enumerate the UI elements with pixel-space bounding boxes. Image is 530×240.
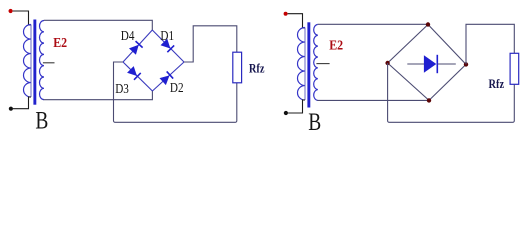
wire (right secondary center-tap stub): [316, 63, 329, 65]
svg-text:E2: E2: [329, 37, 343, 53]
svg-text:D1: D1: [160, 28, 174, 43]
terminal dot (red, right transformer primary top): [284, 12, 288, 16]
wire (right bridge - vertex down to bottom rail to load bottom): [388, 63, 515, 122]
transformer T1 primary spine line: [30, 25, 32, 98]
diode (right bridge symbol) anode lead wire: [407, 63, 424, 65]
wire (primary top terminal lead): [13, 11, 31, 25]
svg-text:D4: D4: [121, 28, 135, 43]
terminal dot (red, left transformer primary top): [9, 9, 13, 13]
svg-text:Rfz: Rfz: [249, 61, 265, 75]
diode (right bridge symbol) cathode bar: [436, 55, 438, 73]
transformer T2 secondary winding: [314, 24, 318, 100]
resistor Rfz (right load): [510, 53, 519, 84]
wire (primary bottom terminal lead): [13, 97, 31, 109]
diode D3 (bottom-left arm, cathode toward bottom vertex): [127, 66, 141, 80]
bridge (right) edge bottom-left: [388, 63, 429, 100]
node dot (right bridge top vertex): [426, 22, 430, 26]
wire (secondary center-tap stub): [43, 62, 55, 64]
wire (secondary bottom rail to bridge bottom vertex): [44, 91, 153, 100]
resistor Rfz (left load): [233, 52, 242, 83]
svg-text:Rfz: Rfz: [489, 77, 505, 91]
wire (right primary top terminal lead): [288, 14, 305, 28]
transformer T2 core: [307, 22, 310, 107]
wire (right secondary bottom rail to bridge bottom vertex): [317, 99, 429, 101]
diode D2 (bottom-right arm, cathode toward right vertex): [160, 71, 173, 84]
diode (right bridge symbol) cathode lead wire: [438, 63, 456, 65]
diode D4 (top-left arm, cathode toward top vertex): [129, 41, 142, 54]
bridge (right) edge top-right: [428, 25, 466, 65]
svg-text:B: B: [35, 106, 48, 133]
svg-text:D2: D2: [170, 80, 184, 95]
wire (bridge left vertex down to bottom rail to load bottom): [114, 62, 237, 122]
wire (right secondary top rail to bridge top vertex): [318, 23, 428, 25]
node dot (right bridge left vertex): [385, 61, 389, 65]
bridge edge top-right: [152, 30, 184, 62]
bridge (right) edge top-left: [388, 25, 428, 64]
wire (right bridge + vertex up over to load top): [466, 24, 514, 64]
terminal dot (black, left transformer primary bottom): [9, 107, 13, 111]
node dot (right bridge right vertex): [464, 62, 468, 66]
svg-text:B: B: [308, 108, 321, 133]
transformer T1 secondary winding: [40, 21, 45, 100]
transformer T1 core: [33, 20, 36, 105]
diode D1 (top-right arm, cathode toward right vertex): [161, 39, 175, 53]
transformer T1 primary winding: [24, 25, 31, 98]
diode (right bridge symbol) body: [424, 56, 436, 72]
bridge (right) edge bottom-right: [429, 64, 466, 100]
bridge edge bottom-right: [152, 62, 184, 91]
node (bridge top vertex) / bridge edge top-left: [123, 30, 152, 62]
terminal dot (black, right transformer primary bottom): [284, 111, 288, 115]
bridge edge bottom-left: [123, 62, 152, 91]
wire (secondary top rail to bridge top vertex): [44, 20, 152, 30]
wire (right primary bottom terminal lead): [288, 100, 305, 113]
wire (bridge right vertex up to top rail to load top): [184, 26, 237, 62]
transformer T2 primary spine line: [304, 28, 306, 101]
svg-text:D3: D3: [115, 81, 129, 96]
svg-text:E2: E2: [53, 34, 67, 50]
node dot (right bridge bottom vertex): [427, 98, 431, 102]
transformer T2 primary winding: [298, 28, 306, 101]
